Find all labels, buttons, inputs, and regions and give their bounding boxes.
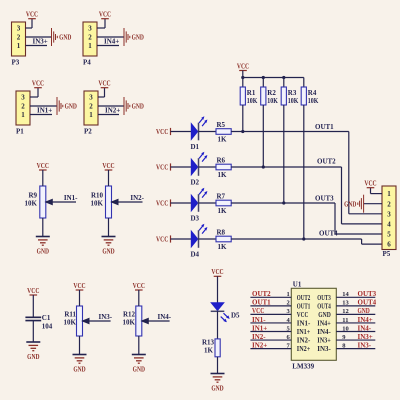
svg-text:OUT4: OUT4 (358, 299, 377, 307)
svg-text:10K: 10K (288, 97, 299, 105)
pin 5 U1 net IN1+ (250, 331, 291, 333)
svg-text:OUT3: OUT3 (315, 195, 334, 203)
svg-text:VCC: VCC (32, 80, 44, 88)
power VCC D5 (214, 276, 222, 303)
svg-text:10: 10 (342, 325, 349, 332)
svg-text:C1: C1 (42, 314, 51, 322)
svg-text:D5: D5 (231, 311, 240, 319)
svg-text:10K: 10K (91, 200, 104, 208)
wire R13 to GND (217, 357, 219, 373)
svg-text:R3: R3 (288, 89, 297, 97)
svg-text:1: 1 (287, 291, 290, 298)
wire P3 pin2 to GND (26, 36, 52, 38)
junction rail (282, 76, 285, 79)
wire D2 to R6 (199, 166, 217, 168)
pin 12 U1 net GND (336, 313, 375, 315)
svg-text:VCC: VCC (37, 162, 49, 170)
svg-text:10K: 10K (308, 97, 319, 105)
wire P5 pin1 to VCC (371, 193, 383, 195)
svg-text:10K: 10K (64, 319, 77, 327)
resistor R4 (301, 87, 306, 105)
svg-text:1: 1 (387, 190, 391, 198)
power VCC P4 (101, 18, 109, 20)
svg-text:GND: GND (344, 200, 356, 208)
connector P2 (84, 91, 98, 125)
svg-text:VCC: VCC (156, 236, 168, 244)
potentiometer R12 (136, 306, 142, 336)
ground GND R11 (73, 354, 87, 356)
svg-text:1K: 1K (218, 243, 228, 251)
LED D1 (191, 124, 197, 140)
svg-text:R13: R13 (202, 338, 215, 346)
svg-text:VCC: VCC (133, 282, 145, 290)
svg-text:U1: U1 (293, 281, 302, 289)
wire P1 pin2 to GND (30, 105, 57, 107)
svg-text:R5: R5 (217, 121, 226, 129)
pin 6 U1 net IN2- (250, 339, 291, 341)
wire P2 pin3 to VCC (98, 96, 105, 98)
power VCC R11 (76, 290, 84, 306)
svg-text:IN3-: IN3- (317, 344, 331, 353)
wire P1 pin1 net IN1+ (30, 114, 52, 116)
wire D5 to R13 (217, 311, 219, 339)
svg-text:2: 2 (88, 34, 92, 42)
resistor R13 (215, 339, 220, 357)
svg-text:GND: GND (59, 34, 71, 42)
wire OUT4 to P5 pin6 (361, 239, 363, 244)
ground GND P2 (124, 97, 130, 115)
wire C1 to GND (32, 321, 34, 342)
wire P4 pin2 to GND (97, 36, 124, 38)
power VCC rail (239, 70, 247, 72)
svg-text:D3: D3 (191, 215, 200, 223)
svg-text:2: 2 (17, 34, 21, 42)
power VCC R12 (135, 290, 143, 306)
pin 11 U1 net IN4+ (336, 322, 375, 324)
pin 9 U1 net IN3+ (336, 339, 375, 341)
pin 13 U1 net OUT4 (336, 305, 375, 307)
op-amp U1 LM339 body (291, 288, 336, 360)
pin 2 U1 net OUT1 (250, 305, 291, 307)
wire R2 bottom to OUT2 (262, 105, 264, 167)
svg-text:GND: GND (133, 365, 145, 373)
svg-text:IN4-: IN4- (358, 324, 372, 332)
ground GND P1 (57, 97, 63, 115)
svg-text:2: 2 (287, 300, 290, 307)
power VCC R10 (105, 170, 113, 186)
wire R10 bottom to GND (108, 218, 110, 236)
capacitor C1 (25, 316, 41, 318)
svg-text:GND: GND (211, 384, 223, 392)
svg-text:2: 2 (89, 103, 93, 111)
svg-text:LM339: LM339 (292, 363, 314, 371)
potentiometer R10 (106, 186, 112, 218)
wire R7 to P5 net OUT3 (231, 202, 335, 204)
svg-text:R6: R6 (217, 156, 226, 164)
svg-text:D2: D2 (191, 179, 200, 187)
svg-text:VCC: VCC (156, 128, 168, 136)
wire R1 top (242, 78, 244, 88)
svg-text:VCC: VCC (99, 11, 111, 19)
wiper wire R9 net IN1- (46, 201, 76, 203)
wire R4 top (303, 78, 305, 88)
LED D2 (191, 159, 197, 175)
wire OUT2 to P5 pin4 (341, 167, 343, 224)
svg-text:GND: GND (73, 365, 85, 373)
wire OUT1 to P5 pin3 (348, 132, 350, 214)
svg-text:6: 6 (387, 241, 391, 249)
junction node OUT4 (302, 237, 305, 240)
wire P1 pin3 to VCC (30, 96, 38, 98)
wire R12 bottom to GND (138, 336, 140, 354)
svg-text:VCC: VCC (364, 180, 376, 188)
ground GND R9 (36, 236, 50, 238)
svg-text:VCC: VCC (98, 80, 110, 88)
resistor R6 (216, 164, 231, 170)
connector P5 (382, 186, 396, 250)
wire R1 bottom to OUT1 (242, 105, 244, 132)
svg-text:R8: R8 (217, 228, 226, 236)
svg-text:VCC: VCC (211, 268, 223, 276)
svg-text:10K: 10K (123, 319, 136, 327)
power VCC P3 (28, 18, 36, 20)
wire VCC to D2 (171, 166, 192, 168)
svg-text:3: 3 (88, 25, 92, 33)
wire VCC rail (243, 77, 304, 79)
svg-text:1: 1 (21, 111, 25, 119)
svg-text:P2: P2 (84, 128, 92, 136)
svg-text:3: 3 (89, 94, 93, 102)
svg-text:4: 4 (387, 221, 391, 229)
svg-text:R9: R9 (28, 192, 37, 200)
ground GND R12 (132, 354, 146, 356)
ground GND P3 (52, 28, 58, 46)
svg-text:2: 2 (387, 200, 391, 208)
svg-text:P1: P1 (16, 128, 24, 136)
svg-text:IN2+: IN2+ (252, 341, 267, 349)
svg-text:OUT1: OUT1 (315, 123, 334, 131)
svg-text:R11: R11 (64, 311, 76, 319)
junction rail (241, 76, 244, 79)
svg-text:IN3+: IN3+ (358, 333, 373, 341)
wire P3 pin3 to VCC (26, 27, 33, 29)
svg-text:1K: 1K (204, 347, 214, 355)
svg-text:IN1-: IN1- (64, 194, 78, 202)
svg-text:VCC: VCC (252, 307, 264, 315)
svg-text:IN4-: IN4- (157, 313, 171, 321)
resistor R1 (240, 87, 245, 105)
wire R5 to P5 net OUT1 (231, 131, 349, 133)
svg-text:5: 5 (387, 231, 391, 239)
wiper wire R11 net IN3- (83, 320, 111, 322)
connector P4 (83, 22, 97, 56)
svg-text:VCC: VCC (237, 62, 249, 70)
svg-text:12: 12 (342, 308, 349, 315)
svg-text:R7: R7 (217, 192, 226, 200)
svg-text:GND: GND (132, 34, 144, 42)
wire D3 to R7 (199, 202, 217, 204)
svg-text:VCC: VCC (26, 11, 38, 19)
svg-text:D1: D1 (191, 143, 200, 151)
resistor R3 (281, 87, 286, 105)
svg-text:104: 104 (42, 322, 53, 330)
wire P3 pin1 net IN3+ (26, 45, 48, 47)
LED D4 (191, 231, 197, 247)
power VCC P2 (101, 87, 109, 89)
svg-text:10K: 10K (25, 200, 38, 208)
wire R2 top (262, 78, 264, 88)
wire P5 pin2 to GND (364, 203, 382, 205)
svg-text:GND: GND (358, 307, 370, 315)
ground GND R10 (102, 236, 116, 238)
pin 7 U1 net IN2+ (250, 348, 291, 350)
svg-text:R1: R1 (247, 89, 256, 97)
resistor R8 (216, 236, 231, 242)
svg-text:VCC: VCC (27, 287, 39, 295)
svg-text:2: 2 (21, 103, 25, 111)
wire OUT3 to P5 pin5 (334, 203, 336, 234)
resistor R7 (216, 200, 231, 206)
svg-text:3: 3 (21, 94, 25, 102)
svg-text:IN4+: IN4+ (104, 38, 119, 46)
svg-text:1K: 1K (218, 207, 228, 215)
svg-text:VCC: VCC (73, 282, 85, 290)
svg-text:10K: 10K (247, 97, 258, 105)
svg-text:10K: 10K (267, 97, 278, 105)
svg-text:P4: P4 (83, 59, 91, 67)
wiper wire R10 net IN2- (112, 201, 143, 203)
ground GND R13 (211, 373, 225, 375)
svg-text:GND: GND (65, 103, 77, 111)
ground GND C1 (26, 341, 40, 343)
svg-text:1: 1 (89, 111, 93, 119)
svg-text:14: 14 (342, 291, 349, 298)
wire P2 pin1 net IN2+ (98, 114, 119, 116)
svg-text:R10: R10 (91, 192, 104, 200)
svg-text:VCC: VCC (156, 200, 168, 208)
svg-text:GND: GND (37, 247, 49, 255)
potentiometer R11 (77, 306, 83, 336)
svg-text:IN2-: IN2- (130, 194, 144, 202)
svg-text:P5: P5 (383, 250, 391, 258)
connector P3 (12, 22, 26, 56)
pin 8 U1 net IN3- (336, 348, 375, 350)
svg-text:R2: R2 (267, 89, 276, 97)
svg-text:R12: R12 (123, 311, 136, 319)
svg-text:IN3-: IN3- (358, 341, 372, 349)
svg-text:3: 3 (387, 210, 391, 218)
svg-text:IN3+: IN3+ (33, 38, 48, 46)
wire P4 pin1 net IN4+ (97, 45, 119, 47)
junction node OUT3 (282, 201, 285, 204)
junction node OUT1 (241, 130, 244, 133)
power VCC P5 (367, 187, 375, 189)
svg-text:VCC: VCC (156, 164, 168, 172)
wire R6 to P5 net OUT2 (231, 166, 341, 168)
svg-text:IN2+: IN2+ (297, 344, 311, 353)
svg-text:R4: R4 (308, 89, 317, 97)
connector P1 (16, 91, 30, 125)
pin 3 U1 net VCC (250, 313, 291, 315)
power VCC R9 (39, 170, 47, 186)
svg-text:IN4+: IN4+ (358, 316, 373, 324)
wire P4 pin3 to VCC (97, 27, 105, 29)
svg-text:11: 11 (342, 317, 348, 324)
svg-text:IN2-: IN2- (252, 333, 266, 341)
wire D4 to R8 (199, 238, 217, 240)
wire R3 top (283, 78, 285, 88)
wire R9 bottom to GND (42, 218, 44, 236)
svg-text:OUT3: OUT3 (358, 290, 377, 298)
svg-text:GND: GND (102, 247, 114, 255)
svg-text:GND: GND (27, 353, 39, 361)
LED D3 (191, 195, 197, 211)
pin 10 U1 net IN4- (336, 331, 375, 333)
junction rail (262, 76, 265, 79)
svg-text:OUT2: OUT2 (317, 158, 336, 166)
svg-text:1: 1 (88, 42, 92, 50)
svg-text:IN1+: IN1+ (252, 324, 267, 332)
ground GND P5 (358, 195, 364, 213)
wire R4 bottom to OUT4 (303, 105, 305, 239)
wire R8 to P5 net OUT4 (231, 238, 361, 240)
pin 1 U1 net OUT2 (250, 296, 291, 298)
svg-text:1K: 1K (218, 171, 228, 179)
potentiometer R9 (40, 186, 46, 218)
svg-text:VCC: VCC (102, 162, 114, 170)
svg-text:1K: 1K (218, 136, 228, 144)
wire D1 to R5 (199, 131, 217, 133)
ground GND P4 (124, 28, 130, 46)
wire R3 bottom to OUT3 (283, 105, 285, 203)
LED D5 (211, 303, 224, 311)
svg-text:P3: P3 (12, 59, 20, 67)
wire VCC to D4 (171, 238, 192, 240)
svg-text:IN3-: IN3- (98, 313, 112, 321)
wire R11 bottom to GND (79, 336, 81, 354)
svg-text:OUT1: OUT1 (252, 299, 271, 307)
svg-text:1: 1 (17, 42, 21, 50)
wire P2 pin2 to GND (98, 105, 124, 107)
svg-text:GND: GND (132, 103, 144, 111)
svg-text:IN1+: IN1+ (37, 107, 52, 115)
power VCC P1 (34, 87, 42, 89)
svg-text:OUT2: OUT2 (252, 290, 271, 298)
junction node OUT2 (262, 165, 265, 168)
svg-text:13: 13 (342, 300, 349, 307)
wiper wire R12 net IN4- (142, 320, 170, 322)
wire VCC to D1 (171, 131, 192, 133)
svg-text:IN2+: IN2+ (105, 107, 120, 115)
pin 4 U1 net IN1- (250, 322, 291, 324)
power VCC C1 (30, 295, 38, 317)
pin 14 U1 net OUT3 (336, 296, 375, 298)
svg-text:IN1-: IN1- (252, 316, 266, 324)
svg-text:3: 3 (17, 25, 21, 33)
wire VCC to D3 (171, 202, 192, 204)
resistor R2 (261, 87, 266, 105)
svg-text:D4: D4 (191, 251, 200, 259)
resistor R5 (216, 129, 231, 135)
